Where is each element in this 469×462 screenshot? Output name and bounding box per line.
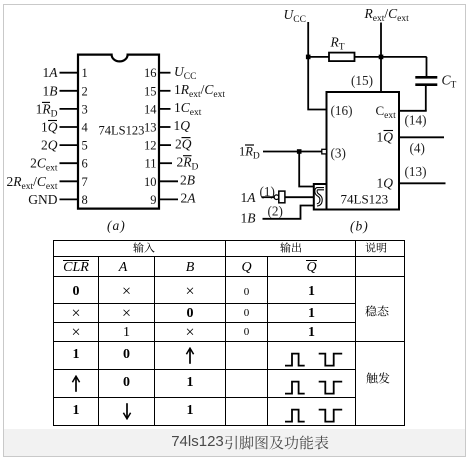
svg-text:1A: 1A [241, 190, 257, 205]
svg-text:7: 7 [82, 175, 88, 189]
svg-text:74LS123: 74LS123 [341, 192, 389, 207]
schmitt trigger box [314, 184, 327, 210]
svg-text:12: 12 [144, 139, 157, 153]
junction R_ext/C_ext [379, 55, 384, 60]
svg-text:CT: CT [442, 73, 457, 91]
wire : R_T to C_T top rail [355, 56, 427, 58]
svg-text:1RD: 1RD [36, 101, 58, 119]
svg-text:(14): (14) [405, 113, 427, 128]
wire : C_T to pin 14 (C_ext) [399, 110, 427, 112]
wire : 1R_D-bar to pin 3 [263, 151, 322, 153]
svg-text:Cext: Cext [376, 103, 397, 121]
svg-text:3: 3 [82, 102, 88, 116]
op-amp U1 : 74LS123 DIP-16 body [78, 55, 159, 209]
wire : pin 14 lead [159, 108, 171, 110]
svg-text:(4): (4) [410, 141, 425, 156]
pin 1 buffer box [279, 191, 285, 203]
wire : pin 12 lead [159, 144, 171, 146]
svg-text:11: 11 [144, 157, 156, 171]
svg-text:2RD: 2RD [177, 154, 199, 172]
wire : 1Q output pin 13 [399, 182, 446, 184]
svg-text:1B: 1B [43, 83, 58, 98]
svg-text:2Q: 2Q [175, 136, 192, 151]
wire : pin 9 lead [159, 198, 178, 200]
svg-text:2Rext/Cext: 2Rext/Cext [7, 174, 58, 192]
wire : 1Q-bar output pin 4 [399, 136, 444, 138]
wire : pin 3 lead [60, 108, 79, 110]
svg-text:UCC: UCC [284, 7, 306, 25]
svg-text:RT: RT [330, 35, 345, 53]
svg-text:Rext/Cext: Rext/Cext [364, 6, 410, 24]
wire : 1A lead [262, 196, 275, 198]
wire : pin 2 lead [60, 90, 79, 92]
wire : pin 16 lead [159, 72, 171, 74]
resistor R_T [329, 35, 355, 62]
svg-text:4: 4 [82, 121, 89, 135]
wire : pin 5 lead [60, 144, 79, 146]
node 1Q-bar pin name [377, 130, 394, 145]
junction on 1R_D line [297, 149, 302, 154]
svg-text:16: 16 [144, 66, 157, 80]
svg-text:1Cext: 1Cext [174, 100, 202, 118]
wire : U_CC to R_T [308, 56, 329, 58]
wire : buffer to schmitt [285, 196, 314, 198]
wire : 1R_D branch down to schmitt input [299, 152, 314, 187]
svg-text:GND: GND [28, 192, 57, 207]
svg-text:14: 14 [144, 102, 157, 116]
wire : pin 10 lead [159, 180, 178, 182]
function table [53, 240, 405, 426]
capacitor C_T [415, 57, 456, 111]
svg-text:(13): (13) [405, 164, 427, 179]
svg-text:(b): (b) [350, 219, 368, 234]
svg-text:(15): (15) [351, 73, 373, 88]
svg-text:2B: 2B [180, 173, 195, 188]
svg-text:(a): (a) [107, 218, 125, 233]
svg-text:1Q: 1Q [41, 120, 58, 135]
wire : pin 13 lead [159, 126, 171, 128]
wire : pin 15 lead [159, 90, 171, 92]
svg-text:74LS123: 74LS123 [99, 124, 145, 138]
wire : pin 11 lead [159, 162, 172, 164]
svg-text:1Q: 1Q [377, 130, 394, 145]
wire : 1B lead to schmitt [263, 206, 314, 219]
wire : pin 1 lead [60, 72, 79, 74]
junction on U_CC line [306, 55, 311, 60]
wire : pin 4 lead [60, 126, 79, 128]
svg-text:6: 6 [82, 157, 88, 171]
svg-text:1Q: 1Q [377, 176, 394, 191]
svg-text:2Q: 2Q [41, 138, 58, 153]
svg-text:(3): (3) [331, 146, 346, 161]
svg-text:1: 1 [82, 66, 88, 80]
wire : R_ext/C_ext vertical to pin 15 [380, 23, 382, 93]
svg-text:(16): (16) [331, 103, 353, 118]
node 1R_D-bar input label [239, 145, 260, 162]
svg-text:1Rext/Cext: 1Rext/Cext [174, 82, 225, 100]
svg-text:UCC: UCC [174, 64, 196, 82]
svg-text:8: 8 [82, 193, 88, 207]
svg-text:1B: 1B [241, 211, 256, 226]
svg-text:15: 15 [144, 84, 157, 98]
svg-text:2: 2 [82, 84, 88, 98]
svg-text:10: 10 [144, 175, 157, 189]
svg-text:1A: 1A [43, 65, 59, 80]
svg-text:(2): (2) [268, 204, 283, 219]
svg-text:2A: 2A [181, 191, 197, 206]
schmitt hysteresis squiggle [316, 189, 324, 205]
pin 3 inverting square [322, 149, 327, 154]
wire : pin 7 lead [60, 180, 79, 182]
wire : pin 8 lead [60, 198, 79, 200]
svg-text:9: 9 [150, 193, 156, 207]
pin 1 inverting bubble [274, 195, 279, 200]
svg-text:13: 13 [144, 121, 157, 135]
svg-text:1Q: 1Q [174, 118, 191, 133]
op-amp U2 : 74LS123 block [327, 92, 400, 210]
svg-text:5: 5 [82, 139, 88, 153]
svg-text:2Cext: 2Cext [30, 156, 58, 174]
svg-text:1RD: 1RD [239, 145, 260, 162]
caption bar [4, 429, 465, 456]
wire : U_CC vertical to pin 16 [308, 22, 326, 110]
wire : pin 6 lead [60, 162, 79, 164]
